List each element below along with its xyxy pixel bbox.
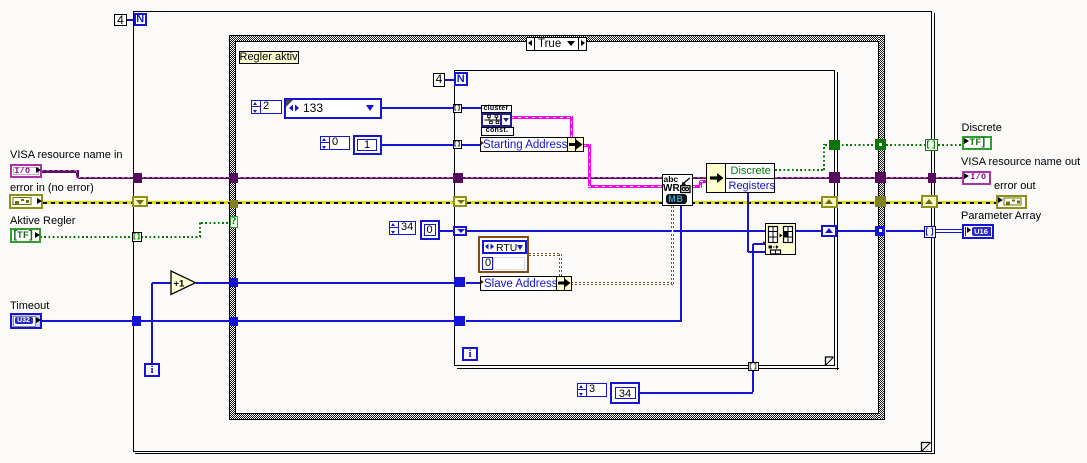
svg-text:+1: +1	[174, 279, 186, 290]
